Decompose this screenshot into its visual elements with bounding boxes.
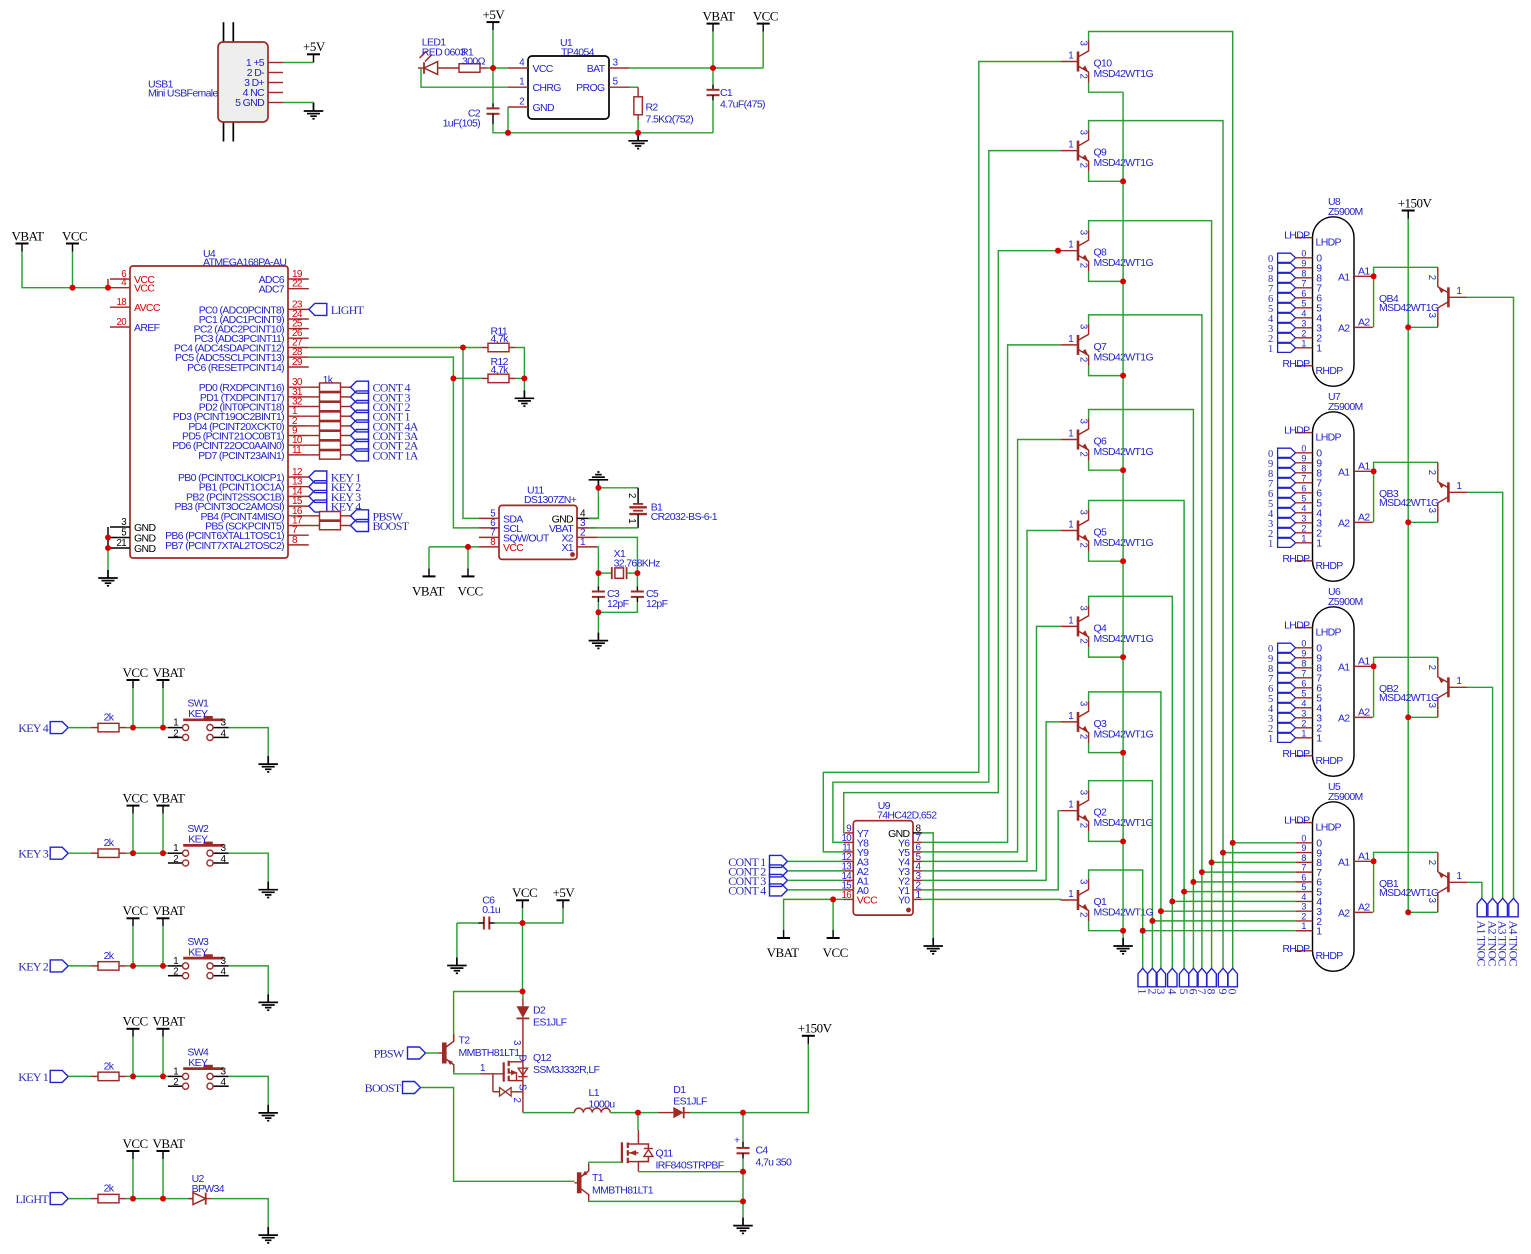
diode D2 ES1JLF [517, 992, 567, 1029]
net flag CONT 4 [351, 381, 411, 395]
capacitor C4 4,7u 350 [734, 1113, 792, 1172]
transistor Q5 MSD42WT1G [1061, 510, 1154, 552]
ground [628, 133, 648, 149]
node [1120, 467, 1126, 473]
net flag 7 [1195, 968, 1209, 994]
node [596, 570, 602, 576]
svg-text:+: + [734, 1134, 740, 1146]
svg-text:PROG: PROG [576, 82, 605, 94]
wire Y7 to Q8 base [843, 251, 1060, 833]
node [1371, 663, 1377, 669]
wire anode [1374, 267, 1438, 327]
svg-text:2: 2 [173, 1077, 178, 1088]
node [1230, 840, 1236, 846]
switch SW2 KEY [168, 823, 229, 866]
net flag KEY 2 [18, 959, 68, 973]
svg-text:KEY: KEY [188, 834, 208, 846]
svg-text:1: 1 [1301, 533, 1306, 543]
transistor Q3 MSD42WT1G [1061, 701, 1154, 743]
connector USB1 Mini USBFemale [148, 22, 283, 141]
node [1150, 918, 1156, 924]
node [70, 285, 76, 291]
svg-text:2: 2 [173, 728, 178, 739]
wire [492, 30, 494, 103]
svg-text:ATMEGA168PA-AU: ATMEGA168PA-AU [203, 257, 286, 269]
svg-text:2: 2 [511, 1098, 522, 1103]
wire Y0 to Q1 base [922, 898, 1060, 901]
wire VCC pin8 [429, 546, 479, 548]
svg-text:+5V: +5V [303, 39, 326, 54]
wire emitter [1089, 647, 1124, 657]
svg-text:VCC: VCC [123, 903, 148, 918]
resistor R-array 1k BOOST [309, 521, 351, 530]
wire collector [1089, 870, 1143, 968]
net flag 5 [1268, 693, 1296, 705]
wire [454, 992, 523, 1041]
node [1120, 373, 1126, 379]
svg-text:2: 2 [1078, 638, 1089, 643]
net flag CONT 2 [728, 864, 787, 878]
node [830, 897, 836, 903]
node [1120, 558, 1126, 564]
net flag 5 [1268, 498, 1296, 510]
net flag CONT 3A [351, 429, 419, 443]
wire collector [1089, 596, 1173, 968]
svg-text:8: 8 [1301, 853, 1306, 863]
net flag 3 [1268, 518, 1296, 530]
svg-text:RHDP: RHDP [1282, 553, 1310, 565]
node [740, 1199, 746, 1205]
ground [515, 390, 535, 406]
svg-text:2: 2 [1078, 912, 1089, 917]
wire [126, 1198, 168, 1200]
svg-text:VCC: VCC [123, 790, 148, 805]
net flag 2 [1268, 723, 1296, 735]
net flag 7 [1268, 673, 1296, 685]
diode D1 ES1JLF [658, 1084, 707, 1118]
svg-text:CONT 4: CONT 4 [728, 883, 766, 897]
wire collector [1089, 32, 1233, 969]
svg-text:VBAT: VBAT [153, 903, 186, 918]
transistor T1 MMBTH81LT1 [575, 1164, 654, 1202]
wire anode [1374, 657, 1438, 717]
net flag KEY 4 [309, 500, 361, 514]
net flag CONT 1 [728, 855, 787, 869]
node [130, 963, 136, 969]
ground [589, 472, 609, 488]
svg-text:1: 1 [1301, 338, 1306, 348]
wire emitter [1089, 552, 1124, 562]
svg-text:0: 0 [1301, 833, 1306, 843]
node [635, 570, 641, 576]
node [1220, 850, 1226, 856]
node [1199, 869, 1205, 875]
net flag CONT 2A [351, 439, 419, 453]
svg-text:1: 1 [480, 1063, 485, 1074]
net flag 1 [1268, 733, 1296, 745]
svg-text:7: 7 [1301, 278, 1306, 288]
transistor Q9 MSD42WT1G [1061, 130, 1154, 172]
node [160, 850, 166, 856]
node [1158, 908, 1164, 914]
decoder U9 74HC42D,652 [842, 800, 938, 915]
node [1120, 178, 1126, 184]
svg-text:VCC: VCC [123, 1136, 148, 1151]
net flag CONT 3 [728, 874, 787, 888]
svg-text:5: 5 [1301, 298, 1306, 308]
wire GND pin2 [507, 107, 509, 133]
net flag 7 [1268, 478, 1296, 490]
svg-text:3: 3 [1301, 513, 1306, 523]
wire [690, 1044, 808, 1113]
ground [258, 994, 278, 1010]
svg-text:Y0: Y0 [898, 894, 910, 906]
node [830, 897, 836, 903]
svg-text:LHDP: LHDP [1284, 815, 1310, 827]
wire Y6 to Q7 base [922, 345, 1060, 843]
svg-text:2: 2 [1078, 823, 1089, 828]
svg-text:1: 1 [1301, 921, 1306, 931]
svg-text:8: 8 [490, 537, 495, 548]
net flag 4 [1268, 703, 1296, 715]
node [1405, 909, 1411, 915]
node [465, 544, 471, 550]
svg-text:4: 4 [1301, 503, 1306, 513]
wire cathode bus 6 [1172, 900, 1295, 902]
svg-text:0: 0 [1301, 443, 1306, 453]
wire Y3 to Q4 base [922, 626, 1060, 871]
wire emitter [1089, 743, 1124, 753]
resistor R12 4.7k [453, 356, 515, 382]
svg-text:1: 1 [1068, 520, 1073, 531]
net flag KEY 1 [18, 1070, 68, 1084]
svg-text:3: 3 [121, 517, 126, 528]
svg-text:3: 3 [1078, 130, 1089, 135]
svg-text:T1: T1 [592, 1172, 604, 1184]
node [130, 725, 136, 731]
wire Y8 to Q9 base [833, 151, 1061, 843]
svg-text:TP4054: TP4054 [561, 47, 595, 59]
transistor Q2 MSD42WT1G [1061, 790, 1154, 832]
wire [742, 1201, 744, 1217]
resistor 2k [91, 712, 126, 732]
svg-text:21: 21 [117, 538, 127, 549]
wire cathode bus 2 [1212, 861, 1296, 863]
node [1405, 324, 1411, 330]
svg-text:LHDP: LHDP [1316, 237, 1342, 249]
net flag 3 [1154, 968, 1168, 994]
net flag 6 [1268, 293, 1296, 305]
wire source [638, 1171, 743, 1173]
nixie tube U5 Z5900M [1282, 781, 1372, 972]
wire [1408, 326, 1438, 328]
svg-text:BOOST: BOOST [373, 519, 410, 533]
node [596, 609, 602, 615]
wire [68, 852, 91, 854]
net flag 1 [1268, 538, 1296, 550]
svg-text:BAT: BAT [587, 63, 606, 75]
wire emitter [1089, 172, 1124, 182]
svg-text:2k: 2k [104, 1060, 115, 1072]
wire [162, 814, 164, 854]
svg-text:29: 29 [292, 357, 303, 368]
wire cathode bus 9 [1143, 930, 1296, 932]
svg-text:1: 1 [1068, 334, 1073, 345]
wire GND pin4 [588, 488, 598, 519]
nixie tube U7 Z5900M [1282, 391, 1372, 582]
node [160, 1196, 166, 1202]
wire Y4 to Q5 base [922, 531, 1060, 862]
mosfet Q12 SSM3J332R,LF [480, 1018, 600, 1112]
node [130, 1196, 136, 1202]
svg-text:A2: A2 [1338, 907, 1350, 919]
wire [107, 527, 109, 548]
wire BAT net [629, 67, 763, 69]
svg-text:3: 3 [1301, 708, 1306, 718]
switch SW3 KEY [168, 936, 229, 979]
svg-text:A1: A1 [1358, 655, 1370, 667]
svg-text:MSD42WT1G: MSD42WT1G [1094, 68, 1154, 80]
transistor Q8 MSD42WT1G [1061, 230, 1154, 272]
wire VCC pin16 [784, 899, 844, 930]
svg-text:2: 2 [1078, 163, 1089, 168]
svg-text:A2: A2 [1358, 706, 1370, 718]
mcu U4 ATMEGA168PA-AU [110, 248, 309, 558]
wire [162, 1037, 164, 1077]
ground [258, 1227, 278, 1243]
wire [588, 1162, 590, 1164]
wire collector [1089, 781, 1153, 969]
node [1405, 519, 1411, 525]
resistor 2k [91, 837, 126, 857]
svg-text:L1: L1 [589, 1087, 600, 1099]
svg-text:D2: D2 [533, 1005, 546, 1017]
wire [107, 279, 109, 288]
svg-text:1: 1 [1068, 140, 1073, 151]
svg-text:1: 1 [1068, 429, 1073, 440]
wire [523, 1112, 574, 1114]
ground [1113, 938, 1133, 954]
svg-text:Q11: Q11 [656, 1148, 674, 1160]
node [1230, 840, 1236, 846]
svg-text:3: 3 [1301, 902, 1306, 912]
svg-text:7: 7 [1301, 668, 1306, 678]
node [1120, 839, 1126, 845]
node [1120, 750, 1126, 756]
svg-text:VCC: VCC [503, 542, 524, 554]
net flag 9 [1216, 968, 1230, 994]
node [1120, 839, 1126, 845]
node [596, 609, 602, 615]
svg-text:VCC: VCC [62, 228, 87, 243]
transistor QB3 MSD42WT1G [1379, 462, 1467, 522]
svg-text:3: 3 [1078, 230, 1089, 235]
svg-text:LIGHT: LIGHT [16, 1192, 50, 1206]
net flag 4 [1165, 968, 1179, 994]
node [635, 570, 641, 576]
svg-text:3: 3 [1078, 510, 1089, 515]
node [1140, 928, 1146, 934]
svg-text:74HC42D,652: 74HC42D,652 [877, 810, 937, 822]
node [1209, 860, 1215, 866]
svg-text:2k: 2k [104, 837, 115, 849]
wire cathode bus 4 [1193, 881, 1295, 883]
svg-text:0: 0 [1301, 248, 1306, 258]
node [130, 725, 136, 731]
svg-text:Z5900M: Z5900M [1328, 206, 1363, 218]
node [1120, 654, 1126, 660]
wire [1408, 716, 1438, 718]
svg-text:AVCC: AVCC [134, 302, 161, 314]
svg-text:LIGHT: LIGHT [331, 303, 365, 317]
node [160, 725, 166, 731]
node [1405, 519, 1411, 525]
wire [487, 67, 508, 69]
svg-text:3: 3 [1078, 324, 1089, 329]
wire [453, 378, 479, 528]
svg-text:1000u: 1000u [589, 1099, 616, 1111]
svg-text:2: 2 [519, 97, 524, 108]
resistor R-array 1k PBSW [309, 512, 351, 521]
wire [523, 378, 525, 390]
inductor L1 1000u [574, 1087, 615, 1113]
node [596, 570, 602, 576]
wire collector [1089, 315, 1202, 968]
svg-text:2k: 2k [104, 712, 115, 724]
node [522, 376, 528, 382]
svg-text:RED 0603: RED 0603 [422, 46, 466, 58]
svg-text:AREF: AREF [134, 322, 160, 334]
node [1120, 928, 1126, 934]
svg-text:2: 2 [1301, 718, 1306, 728]
wire [229, 1076, 269, 1107]
node [1405, 714, 1411, 720]
net flag 9 [1268, 653, 1296, 665]
net flag CONT 1 [351, 410, 411, 424]
svg-text:DS1307ZN+: DS1307ZN+ [524, 494, 577, 506]
wire [467, 547, 469, 569]
node [1181, 889, 1187, 895]
svg-text:D1: D1 [673, 1084, 686, 1096]
svg-text:1: 1 [1316, 538, 1322, 550]
wire [132, 926, 134, 966]
rtc U11 DS1307ZN+ [479, 484, 597, 559]
node [130, 1074, 136, 1080]
svg-text:2: 2 [1426, 470, 1437, 475]
wire [229, 853, 269, 884]
svg-text:KEY 4: KEY 4 [18, 721, 48, 735]
ground [447, 958, 467, 974]
svg-text:A2: A2 [1338, 712, 1350, 724]
svg-text:RHDP: RHDP [1282, 943, 1310, 955]
node [520, 920, 526, 926]
wire [68, 1075, 91, 1077]
wire [162, 926, 164, 966]
photodiode U2 BPW34 [168, 1173, 225, 1205]
svg-text:4: 4 [1301, 308, 1306, 318]
node [635, 130, 641, 136]
net flag 9 [1268, 458, 1296, 470]
svg-text:VBAT: VBAT [767, 945, 800, 960]
svg-text:2k: 2k [104, 950, 115, 962]
switch SW1 KEY [168, 698, 229, 741]
svg-text:3: 3 [1078, 419, 1089, 424]
svg-text:7.5KΩ(752): 7.5KΩ(752) [646, 113, 694, 125]
node [1158, 908, 1164, 914]
resistor R1 300 [459, 46, 487, 72]
capacitor C3 12pF [592, 573, 629, 612]
power VBAT [423, 575, 436, 577]
svg-text:4.7uF(475): 4.7uF(475) [720, 99, 765, 111]
svg-text:A2: A2 [1358, 901, 1370, 913]
svg-text:2: 2 [1078, 263, 1089, 268]
wire [283, 62, 314, 64]
svg-text:GND: GND [533, 102, 555, 114]
node [710, 65, 716, 71]
svg-text:2: 2 [1426, 665, 1437, 670]
wire [463, 348, 479, 519]
svg-text:RHDP: RHDP [1316, 365, 1344, 377]
wire X1 [597, 547, 598, 573]
wire [762, 32, 764, 68]
svg-text:R2: R2 [646, 101, 659, 113]
transistor T2 MMBTH81LT1 [438, 1034, 520, 1072]
svg-text:6: 6 [1301, 288, 1306, 298]
node [1371, 858, 1377, 864]
svg-text:9: 9 [1301, 258, 1306, 268]
svg-text:VBAT: VBAT [153, 790, 186, 805]
svg-text:Q12: Q12 [533, 1052, 552, 1064]
wire [1408, 911, 1438, 913]
node [1199, 869, 1205, 875]
node [490, 65, 496, 71]
svg-text:20: 20 [117, 317, 128, 328]
net flag LIGHT [309, 303, 365, 317]
svg-text:2: 2 [173, 854, 178, 865]
node [70, 285, 76, 291]
transistor QB4 MSD42WT1G [1379, 267, 1467, 327]
wire Y1 to Q2 base [922, 811, 1060, 890]
svg-text:2: 2 [1078, 452, 1089, 457]
wire [637, 120, 639, 133]
ground [258, 756, 278, 772]
wire +150V rail [1407, 219, 1409, 913]
resistor R-array 1k CONT 2A [309, 441, 351, 450]
node [1371, 663, 1377, 669]
svg-text:BOOST: BOOST [365, 1081, 402, 1095]
svg-text:D: D [516, 1055, 527, 1062]
net flag 5 [1177, 968, 1191, 994]
node [522, 376, 528, 382]
nixie tube U6 Z5900M [1282, 586, 1372, 777]
op-amp U1 TP4054 [508, 37, 629, 119]
wire [162, 688, 164, 728]
svg-text:VCC: VCC [753, 8, 778, 23]
svg-text:GND: GND [134, 543, 156, 555]
svg-text:PC6 (RESETPCINT14): PC6 (RESETPCINT14) [187, 362, 284, 374]
node [740, 1169, 746, 1175]
net flag CONT 1A [1475, 898, 1489, 966]
svg-text:6: 6 [1301, 678, 1306, 688]
node [460, 345, 466, 351]
svg-text:5: 5 [1301, 493, 1306, 503]
svg-text:32.768KHz: 32.768KHz [614, 558, 661, 570]
svg-text:9: 9 [1301, 453, 1306, 463]
transistor QB2 MSD42WT1G [1379, 657, 1467, 717]
svg-text:7: 7 [1301, 863, 1306, 873]
svg-text:2: 2 [1078, 357, 1089, 362]
wire [516, 377, 525, 379]
